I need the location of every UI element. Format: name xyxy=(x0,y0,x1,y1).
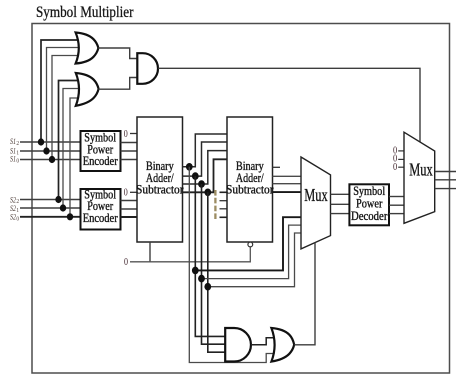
wire encoder1 out bit2 xyxy=(121,142,138,144)
svg-text:Subtractor: Subtractor xyxy=(226,183,274,197)
svg-text:S1: S1 xyxy=(10,154,16,164)
junction dot sum0 xyxy=(204,189,211,197)
wire bus down B (to AND-b in1) xyxy=(195,176,226,336)
svg-text:2: 2 xyxy=(16,199,19,205)
stub 0 to Mux2 in0 xyxy=(398,166,404,168)
wire encoder2 out bit0 xyxy=(121,216,138,218)
junction dot sum1 xyxy=(198,180,205,188)
block binary adder subtractor 2 xyxy=(227,117,273,242)
wire S1_0 input xyxy=(20,159,81,161)
wire G3 output to Mux2 select xyxy=(158,68,420,142)
wire S1_0 to OR1 in3 xyxy=(52,56,78,160)
svg-text:S1: S1 xyxy=(10,136,16,146)
wire BAS1 sum0 to BAS2 xyxy=(183,159,228,192)
svg-text:Decoder: Decoder xyxy=(351,209,388,223)
svg-text:Subtractor: Subtractor xyxy=(136,183,184,197)
wire encoder1 out bit1 xyxy=(121,150,138,152)
wire S2_1 to OR2 in2 xyxy=(63,89,80,209)
svg-text:Symbol Multiplier: Symbol Multiplier xyxy=(36,4,134,21)
inverter bubble BAS2 ctrl xyxy=(248,242,253,247)
mux M2 xyxy=(404,132,435,223)
wire BAS2 out1 to Mux1 xyxy=(273,183,302,185)
junction dot S2_1 xyxy=(60,204,66,211)
wire M1 out2 xyxy=(331,193,350,195)
wire encoder1 out bit0 xyxy=(121,159,138,161)
junction dot S1_2 xyxy=(38,138,44,145)
svg-text:Mux: Mux xyxy=(304,185,327,205)
wire BAS1 ctrl stub xyxy=(149,242,151,262)
wire 0 control line xyxy=(130,247,250,262)
wire G2 output to AND in2 xyxy=(99,78,138,90)
block binary adder subtractor 1 xyxy=(137,117,183,242)
stub BAS2 b2 xyxy=(220,200,228,202)
or-gate G1 (top) xyxy=(76,33,99,64)
svg-text:0: 0 xyxy=(124,129,128,140)
wire bus down A (to OR-b) xyxy=(189,167,278,363)
svg-text:Encoder: Encoder xyxy=(83,154,118,168)
junction dot branch5 xyxy=(198,275,205,283)
block symbol power encoder 1 xyxy=(81,131,121,171)
wire G4 out to G5 xyxy=(251,338,278,345)
junction dot S2_2 xyxy=(55,196,61,203)
wire M1 out1 xyxy=(331,203,350,205)
stub BAS2 b3 xyxy=(220,191,228,193)
svg-text:Encoder: Encoder xyxy=(83,211,118,225)
wire G5 out to M1 select xyxy=(294,243,315,345)
wire S2_0 input xyxy=(20,216,81,218)
wire BAS2 out2 to Mux1 xyxy=(273,175,302,177)
wire branch to Mux1 in4 xyxy=(195,217,301,270)
junction dot branch6 xyxy=(204,283,211,291)
wire M2 out1 xyxy=(435,179,456,181)
wire M2 out2 xyxy=(435,171,456,173)
wire branch to Mux1 in6 xyxy=(208,233,301,287)
wire bus down C (to AND-b in2) xyxy=(202,184,227,344)
wire decoder out1 to Mux2 xyxy=(389,204,404,206)
wire branch to Mux1 in5 xyxy=(202,225,302,279)
junction dot S1_1 xyxy=(43,147,49,154)
and-gate G3 (top) xyxy=(137,53,158,84)
block symbol power decoder xyxy=(349,184,389,225)
wire S2_2 input xyxy=(20,199,81,201)
wire S2_1 input xyxy=(20,207,81,209)
svg-text:1: 1 xyxy=(16,208,19,214)
svg-text:1: 1 xyxy=(16,151,19,157)
wire decoder out0 to Mux2 xyxy=(389,213,404,215)
wire M2 out0 xyxy=(435,188,456,190)
stub 0 to Mux2 in1 xyxy=(398,158,404,160)
svg-text:0: 0 xyxy=(124,188,128,199)
svg-text:2: 2 xyxy=(16,141,19,147)
wire M1 out0 xyxy=(331,213,350,215)
wire BAS1 sum2 to BAS2 xyxy=(183,142,228,176)
stub BAS2 b0 xyxy=(220,216,228,218)
wire S1_1 input xyxy=(20,150,81,152)
or-gate G5 (bottom) xyxy=(271,328,294,362)
junction dot S2_0 xyxy=(67,213,73,220)
svg-text:0: 0 xyxy=(124,257,128,268)
wire BAS2 carry stub xyxy=(273,166,281,168)
stub 0 to Mux2 in2 xyxy=(398,150,404,152)
wire encoder2 out bit2 xyxy=(121,200,138,202)
wire 0 to BAS1 a3 xyxy=(130,133,137,135)
wire decoder out2 to Mux2 xyxy=(389,196,404,198)
junction dot branch4 xyxy=(192,267,199,275)
dashed expansion line at BAS2 inputs xyxy=(214,190,216,221)
wire bus down D (to AND-b in3) xyxy=(208,192,227,352)
wire S1_1 to OR1 in2 xyxy=(47,48,81,152)
svg-text:Mux: Mux xyxy=(409,160,432,180)
wire G1 output to AND in1 xyxy=(98,48,137,59)
wire BAS2 out0 to Mux1 xyxy=(273,191,302,193)
wire S2_0 to OR2 in3 xyxy=(70,98,79,217)
wire encoder2 out bit1 xyxy=(121,208,138,210)
svg-text:0: 0 xyxy=(16,158,19,164)
svg-text:0: 0 xyxy=(393,162,397,173)
svg-text:0: 0 xyxy=(16,216,19,222)
wire 0 to BAS1 b3 xyxy=(130,191,137,193)
and-gate G4 (bottom) xyxy=(225,328,251,362)
stub BAS2 b1 xyxy=(220,208,228,210)
junction dot sum3 xyxy=(186,163,193,171)
wire S2_2 to OR2 in1 xyxy=(59,81,79,200)
mux M1 xyxy=(301,157,331,249)
wire S1_2 input xyxy=(20,141,81,143)
wire BAS1 sum1 to BAS2 xyxy=(183,151,228,184)
wire S1_2 to OR1 in1 xyxy=(41,40,78,142)
junction dot S1_0 xyxy=(49,156,55,163)
or-gate G2 (second) xyxy=(76,73,99,106)
junction dot sum2 xyxy=(192,172,199,180)
block symbol power encoder 2 xyxy=(81,189,121,230)
wire BAS1 sum3 to BAS2 xyxy=(183,134,228,167)
